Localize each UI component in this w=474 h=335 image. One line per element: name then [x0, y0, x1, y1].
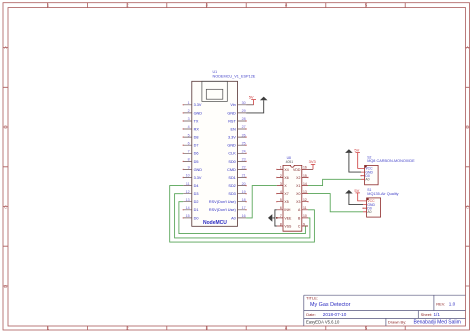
NodeMCU module U1: [183, 70, 256, 226]
U1 left pin stubs 1-15: [183, 105, 192, 218]
3V3 power flag at U8 VDD: [308, 168, 313, 170]
svg-text:GND: GND: [227, 111, 236, 115]
U8 right pin names: [293, 168, 301, 229]
S2 pin stubs: [361, 168, 365, 179]
svg-text:D0: D0: [194, 216, 199, 220]
svg-text:X0: X0: [296, 192, 300, 196]
svg-text:X7: X7: [284, 192, 288, 196]
svg-text:D: D: [4, 284, 7, 289]
5V power flag at S2 VCC: [356, 153, 362, 169]
svg-text:RSV(Don't Use): RSV(Don't Use): [209, 208, 237, 212]
svg-text:3: 3: [280, 182, 282, 186]
svg-text:VEE: VEE: [284, 216, 292, 220]
svg-text:INH: INH: [284, 208, 291, 212]
svg-text:A: A: [466, 45, 469, 50]
sensor module S1 MQ135: [363, 188, 399, 217]
svg-text:5V: 5V: [354, 148, 359, 153]
ground at S1 GND: [345, 190, 363, 205]
svg-text:D5: D5: [194, 160, 199, 164]
svg-text:C: C: [466, 204, 469, 209]
wire net D3-B: U1 pin12 to U8 pin10: [175, 194, 310, 238]
svg-text:SD1: SD1: [228, 176, 235, 180]
svg-text:14: 14: [186, 206, 190, 210]
ground at U1 GND pin 29: [246, 97, 267, 113]
svg-text:17: 17: [242, 206, 246, 210]
svg-text:30: 30: [242, 101, 246, 105]
svg-text:10: 10: [303, 214, 307, 218]
S1 pin names: [367, 199, 375, 214]
U1 right pin numbers: [242, 101, 246, 218]
svg-text:SD3: SD3: [228, 192, 235, 196]
svg-text:5V: 5V: [354, 188, 359, 193]
svg-text:6: 6: [280, 206, 282, 210]
svg-text:25: 25: [242, 141, 246, 145]
svg-text:21: 21: [242, 174, 246, 178]
svg-text:3V3: 3V3: [309, 159, 317, 164]
svg-text:GND: GND: [194, 111, 203, 115]
U8 left pin numbers: [280, 166, 282, 227]
svg-text:2: 2: [188, 109, 190, 113]
svg-text:18: 18: [242, 198, 246, 202]
U8 right pin stubs 16-9: [302, 169, 308, 226]
svg-text:GND: GND: [227, 144, 236, 148]
svg-text:29: 29: [242, 109, 246, 113]
svg-text:9: 9: [188, 166, 190, 170]
svg-text:26: 26: [242, 133, 246, 137]
S2 pin names: [365, 167, 373, 182]
svg-text:MQ135-Air Quality: MQ135-Air Quality: [367, 192, 398, 196]
svg-text:NodeMCU: NodeMCU: [203, 220, 227, 226]
svg-text:1: 1: [188, 101, 190, 105]
svg-text:TITLE:: TITLE:: [306, 296, 318, 301]
wire net A0: U1 pin16 to U8 pin3 X: [246, 186, 277, 218]
svg-text:5V: 5V: [249, 95, 254, 100]
svg-text:1/1: 1/1: [434, 312, 441, 317]
svg-text:10: 10: [186, 174, 190, 178]
svg-text:X1: X1: [296, 184, 300, 188]
svg-text:22: 22: [242, 166, 246, 170]
svg-text:A0: A0: [367, 210, 371, 214]
S1 unconnected D0 pin dot: [362, 208, 363, 209]
U8 unconnected pin dots: [276, 169, 309, 203]
svg-text:15: 15: [186, 214, 190, 218]
svg-text:16: 16: [242, 214, 246, 218]
5V power flag at S1 VCC: [356, 193, 364, 201]
svg-text:RSV(Don't Use): RSV(Don't Use): [209, 200, 237, 204]
U1 right pin names: [209, 103, 237, 220]
svg-text:MQ8 CARBON-MONOXIDE: MQ8 CARBON-MONOXIDE: [367, 159, 415, 163]
svg-text:VDD: VDD: [293, 168, 301, 172]
U1 left pin names: [194, 103, 203, 220]
svg-text:5: 5: [188, 133, 190, 137]
svg-text:4: 4: [188, 125, 190, 129]
svg-text:11: 11: [303, 206, 307, 210]
svg-text:23: 23: [242, 158, 246, 162]
svg-text:16: 16: [303, 166, 307, 170]
svg-text:D2: D2: [194, 200, 199, 204]
U1 right pin stubs 16-30: [238, 105, 247, 218]
svg-text:B: B: [4, 125, 7, 130]
svg-text:1.0: 1.0: [449, 302, 456, 307]
svg-text:14: 14: [303, 182, 307, 186]
svg-text:SD2: SD2: [228, 184, 235, 188]
svg-text:Date:: Date:: [306, 312, 316, 317]
svg-text:4: 4: [280, 190, 282, 194]
svg-text:8: 8: [280, 222, 282, 226]
wire net X0 to S1 A0: [308, 194, 363, 212]
svg-text:2: 2: [280, 174, 282, 178]
U8 right pin numbers: [303, 166, 307, 227]
svg-text:D1: D1: [194, 208, 199, 212]
svg-text:C: C: [4, 204, 7, 209]
svg-text:8: 8: [188, 158, 190, 162]
svg-text:12: 12: [186, 190, 190, 194]
svg-text:X6: X6: [284, 176, 288, 180]
svg-text:20: 20: [242, 182, 246, 186]
title block: [304, 295, 466, 326]
svg-text:RX: RX: [194, 127, 200, 131]
svg-text:27: 27: [242, 125, 246, 129]
svg-text:24: 24: [242, 150, 246, 154]
svg-text:Benabadji Med Salim: Benabadji Med Salim: [414, 320, 461, 326]
svg-text:19: 19: [242, 190, 246, 194]
svg-text:7: 7: [280, 214, 282, 218]
svg-text:5: 5: [280, 198, 282, 202]
junction at U8 VEE pin: [276, 217, 278, 219]
S2 unconnected D0 pin dot: [360, 175, 361, 176]
svg-text:RST: RST: [228, 119, 236, 123]
svg-text:CMD: CMD: [227, 168, 236, 172]
wire net D4-A: U1 pin11 to U8 pin11: [170, 186, 315, 243]
svg-text:A: A: [4, 45, 7, 50]
svg-text:X4: X4: [284, 168, 288, 172]
svg-text:GND: GND: [194, 168, 203, 172]
svg-text:Drawn By:: Drawn By:: [388, 320, 406, 325]
svg-text:7: 7: [188, 150, 190, 154]
U1 left pin numbers: [186, 101, 190, 218]
svg-text:13: 13: [186, 198, 190, 202]
ground at S2 GND: [345, 149, 361, 172]
svg-text:3.3V: 3.3V: [228, 136, 236, 140]
svg-text:CLK: CLK: [228, 152, 236, 156]
multiplexer U8 4051: [277, 156, 308, 231]
svg-text:9: 9: [303, 222, 305, 226]
svg-text:SD0: SD0: [228, 160, 235, 164]
svg-text:Sheet:: Sheet:: [421, 312, 433, 317]
svg-text:12: 12: [303, 198, 307, 202]
svg-text:D8: D8: [194, 136, 199, 140]
svg-text:4051: 4051: [286, 160, 294, 164]
5V power flag at U1 Vin: [246, 104, 254, 106]
svg-text:EN: EN: [231, 127, 237, 131]
svg-text:X5: X5: [284, 200, 288, 204]
svg-text:6: 6: [188, 141, 190, 145]
svg-text:My Gas Detector: My Gas Detector: [310, 302, 351, 308]
svg-text:D7: D7: [194, 144, 199, 148]
svg-text:2018-07-10: 2018-07-10: [323, 312, 347, 317]
svg-text:D4: D4: [194, 184, 199, 188]
svg-text:3.3V: 3.3V: [194, 176, 202, 180]
svg-text:Vin: Vin: [230, 103, 235, 107]
wire net D2-C: U1 pin13 to U8 pin9: [179, 202, 308, 234]
svg-text:1: 1: [280, 166, 282, 170]
U8 left pin stubs 1-8: [277, 169, 283, 226]
svg-text:X3: X3: [296, 200, 300, 204]
U1 unconnected pin dots: [183, 104, 247, 218]
svg-text:D3: D3: [194, 192, 199, 196]
svg-text:28: 28: [242, 117, 246, 121]
svg-text:D6: D6: [194, 152, 199, 156]
svg-text:NODEMCU_V1_ESP12E: NODEMCU_V1_ESP12E: [213, 74, 256, 78]
wire net X1 to S2 A0: [308, 179, 361, 185]
svg-text:15: 15: [303, 174, 307, 178]
svg-text:11: 11: [186, 182, 190, 186]
U8 left pin names: [284, 168, 292, 229]
svg-text:A0: A0: [231, 216, 236, 220]
svg-text:EasyEDA V5.6.10: EasyEDA V5.6.10: [306, 320, 340, 325]
svg-text:3.3V: 3.3V: [194, 103, 202, 107]
sensor module S2 MQ8: [361, 156, 415, 185]
svg-text:TX: TX: [194, 119, 199, 123]
svg-text:3: 3: [188, 117, 190, 121]
S1 pin stubs: [363, 201, 367, 212]
svg-text:13: 13: [303, 190, 307, 194]
svg-text:A0: A0: [365, 178, 369, 182]
ground tie at U8 INH/VEE/VSS: [268, 210, 277, 226]
svg-text:REV.: REV.: [436, 302, 445, 307]
svg-text:VSS: VSS: [284, 224, 292, 228]
svg-text:X2: X2: [296, 176, 300, 180]
svg-text:B: B: [466, 125, 469, 130]
